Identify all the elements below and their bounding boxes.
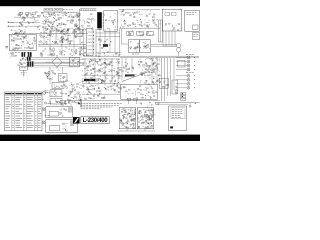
speaker connector hatch [70,120,73,126]
label text mid-top [63,9,73,11]
wire pcb link [118,129,155,131]
rectifier D5 row cluster [83,59,120,67]
resistor bank R30-R40 [120,19,161,28]
AC inlet box [20,66,27,70]
transistor Q6 cluster [133,12,143,18]
wire vertical bus x79 [79,9,81,31]
bridge rectifier D1-D4 (diamond) [52,55,62,69]
fuse F1 row [20,57,27,61]
wire rail y33 [14,32,88,34]
phones connector hatch [69,107,72,112]
speaker box [46,120,78,133]
wire vertical x96 [95,29,97,56]
label under phono box [12,51,30,53]
bias diode cluster [140,72,162,85]
phono MC head amp box [9,34,36,50]
transistor Q7 cluster [145,10,155,18]
wire jack feeds [176,58,187,88]
supply lower cluster [82,74,121,85]
input filter box [178,61,186,68]
resistor network R10-R18 [42,26,80,33]
ribbon cable guide box [158,20,162,42]
tone amp cluster row2 [85,93,106,100]
wire secondary lines lower [34,62,84,65]
headphone jack circle [42,108,45,111]
line amp stage cluster [40,28,84,38]
pcb layout left stipple [120,108,136,128]
voltage selector cluster [18,62,28,66]
pcb layout left box [119,108,136,129]
wire tone to right [151,44,177,46]
power switch S2 cluster [10,53,17,58]
tape jack J8 [187,86,195,89]
speaker switch box [50,99,62,105]
speaker terminal strip [181,93,186,101]
cd jack J4 [187,68,195,71]
transistor Q11 [46,73,49,79]
muting transistor Q8 cluster [98,38,112,49]
AC label text [21,73,28,75]
wire supply verticals [85,58,118,83]
label below pots [132,53,139,55]
resistor R45 (dark) [103,44,108,47]
rec out box [193,33,200,40]
tone defeat switch cluster b [137,31,144,36]
wire rails y44 [38,44,86,46]
scan border bottom (black bar) [0,135,200,141]
flat cable strip [80,9,96,11]
svg-text:L-230/400: L-230/400 [83,118,109,124]
tone defeat switch cluster a [127,31,134,36]
jack label lower [186,72,194,74]
spec box [169,106,187,131]
phones resistor box [50,90,62,97]
emitter resistor R60 (dark bar) [124,74,137,77]
speaker relay parts [165,23,183,30]
phones box [46,107,73,118]
speaker relay box U3 [162,9,182,31]
phones parts cluster [65,90,81,100]
bass pot VR1 box [128,40,140,53]
transformer T1 secondary bars lower [27,61,33,66]
feedback network box [121,84,158,99]
output transistor Q12 cluster [121,62,133,72]
speaker switch parts [64,99,80,105]
capacitor C1 [24,17,25,19]
phono head amp parts [11,35,36,50]
capacitor C12 cluster left of relay [82,14,96,31]
Luxman logo (black square w/ slash) [73,117,80,124]
wire below feedback [127,98,159,108]
wire verticals line amp [44,29,84,56]
selector switch S1 box [86,29,93,56]
transistor Q1 input pair cluster [18,12,41,30]
wire supply rails [82,59,120,83]
relay coil K1 [163,43,181,56]
wire input rails [10,17,40,26]
heatsink box [59,74,68,83]
speaker inner box [49,126,60,131]
notes text block [78,103,122,109]
rear panel box [159,78,169,88]
parts list table [5,92,42,131]
volume control VR3 cluster [39,38,72,46]
wire bridge to cap [45,61,70,63]
phones parts [59,108,66,117]
wire verticals right-center [122,58,157,84]
node B mark [42,99,45,101]
wire verticals center [100,29,120,56]
regulator Q10 cluster [44,70,60,79]
table legend marks [45,91,52,116]
tone amp cluster row1 [83,84,122,93]
op-amp U1 EQ stage cluster [41,12,80,23]
spec box corner mark [170,126,173,128]
capacitor C20 pair above phono box [11,29,26,34]
wire rail y94 [82,93,120,95]
tape jack J6 [187,78,195,81]
protection IC box [52,82,65,88]
mode switch row cluster [84,51,121,57]
wire vertical dark x81 [80,99,82,107]
feedback network parts [123,86,157,100]
wire long bottom bus [60,99,160,101]
scan border top (black bar) [0,0,200,6]
rear connector box [172,80,178,94]
wire secondary lines upper [31,57,84,59]
wire rear bottom rails [155,103,200,105]
wire top rail [41,11,79,13]
wire down from bridge [50,67,63,84]
wire long bus y56 [84,56,199,57]
filter capacitor C31 (dark bar) [84,79,96,81]
transformer T1 primary bars [21,52,31,57]
transistor Q2 cluster row [42,21,79,28]
transistor Q5 cluster [120,10,131,16]
label box PHONO EQ AMP [44,8,63,11]
power terminal box [185,10,200,31]
driver stage cluster heavy [138,58,160,74]
tone defeat switch cluster c [147,31,155,36]
power amp block U2 box [104,10,118,31]
wire rear vertical bus [162,58,175,101]
tape jack J7 [187,82,195,85]
protection parts right [65,83,81,90]
resistor R1 [18,14,21,15]
input coupling caps row [19,13,35,17]
wire AC down [23,67,80,77]
jack label upper [186,53,194,55]
tuner jack J3 [187,64,195,67]
speaker jack circle [42,121,45,124]
power amp internal parts [105,13,118,29]
relay RL1 (solid black block) [97,12,102,29]
wire relay to amp pins [102,14,104,26]
wire rails center [96,33,121,53]
capacitor C30 main filter box [70,57,80,67]
filter box small [75,30,83,37]
treble pot VR2 box [139,40,150,52]
phono jack J1 [187,56,195,59]
ground (left margin) [5,47,8,49]
node A (left input dots) [8,22,14,27]
phono jack J2 [187,60,195,63]
wire phones link [46,92,64,94]
pcb layout right stipple [138,109,156,129]
wire right vertical bus [163,31,175,46]
resistor cluster left of selector [80,42,87,54]
wire output rail [119,9,160,28]
wire diagonal output [122,72,149,82]
ground (rear) [189,103,196,107]
phones inner attenuator box [49,111,58,116]
transformer T1 secondary bars upper [27,57,31,61]
tape jack J5 [187,74,195,77]
model label L-230/400 box [81,117,109,125]
spec box text [171,108,185,119]
balance control cluster [40,47,85,57]
wire vertical x121 [121,29,128,44]
regulator section cluster [83,67,123,76]
selector contact dots [88,32,95,54]
headphone driver circle [43,91,46,94]
relay driver row above [49,101,71,106]
pcb layout right box [137,108,154,129]
speaker parts [62,123,68,131]
